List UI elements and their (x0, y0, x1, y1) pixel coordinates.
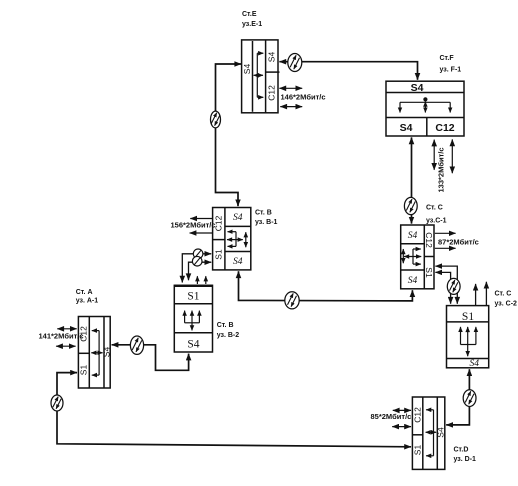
svg-text:S4: S4 (408, 276, 418, 286)
label 146*2Мбит/с with tributary arrows (279, 88, 325, 106)
svg-text:S4: S4 (411, 82, 424, 94)
svg-text:Ст. С: Ст. С (426, 205, 443, 212)
svg-text:C12: C12 (435, 122, 454, 134)
svg-text:уз. А-1: уз. А-1 (76, 298, 99, 305)
wire link E to B-1 (216, 64, 242, 206)
label Ст.В уз.В-1 (255, 210, 278, 227)
node C-1 port labels (408, 231, 434, 286)
svg-text:141*2Мбит/с: 141*2Мбит/с (39, 332, 84, 341)
label Ст.С уз.С-1 (426, 205, 447, 225)
optical cable symbol K8b lower on B-1 to B-2 link (192, 256, 202, 266)
optical cable symbol K9 on B-1 to C-1 link (285, 292, 299, 309)
svg-text:S1: S1 (462, 311, 474, 323)
wire link F to C-1 (411, 137, 413, 223)
svg-text:S4: S4 (187, 339, 199, 351)
node C-2 internal arrows (461, 327, 476, 356)
label Ст.Е уз.Е-1 (242, 11, 262, 28)
node Ст.F уз.F-1 box (386, 81, 464, 136)
node C-1 internal arrows (403, 249, 421, 264)
label 85*2Мбит/с with tributary arrows (371, 410, 412, 426)
node D port labels (412, 407, 445, 455)
wire B-2 top short up arrows (197, 276, 205, 284)
svg-text:Ст. В: Ст. В (255, 210, 272, 217)
node B-1 internal arrows (227, 232, 246, 248)
node A port labels (79, 326, 112, 375)
optical cable symbol K2 on E to F link (288, 54, 302, 72)
node B-2 internal arrows (185, 311, 200, 331)
svg-text:Ст.F: Ст.F (440, 55, 455, 62)
svg-text:146*2Мбит/с: 146*2Мбит/с (281, 93, 326, 102)
node D internal arrows (426, 410, 437, 456)
svg-text:уз. В-1: уз. В-1 (255, 219, 278, 226)
node Ст.В уз.В-2 box (174, 285, 212, 352)
label 133*2Мбит/с with tributary arrows (434, 139, 452, 192)
optical cable symbol K1 on E to B-1 link (211, 111, 221, 128)
svg-text:S4: S4 (408, 231, 418, 241)
svg-text:87*2Мбит/с: 87*2Мбит/с (438, 237, 479, 246)
svg-text:C12: C12 (424, 232, 434, 248)
svg-text:S1: S1 (412, 445, 422, 456)
node F internal arrows (400, 97, 450, 112)
wire link C-1 S1 to C-2 lower (435, 272, 450, 303)
svg-text:уз. С-2: уз. С-2 (495, 301, 518, 308)
label Ст.D уз.D-1 (454, 447, 477, 464)
svg-text:Ст. А: Ст. А (76, 289, 93, 296)
node Ст.С уз.С-1 box (401, 225, 434, 289)
svg-text:уз.С-1: уз.С-1 (426, 218, 447, 225)
svg-text:S1: S1 (424, 267, 434, 278)
svg-text:S4: S4 (267, 52, 277, 63)
node Ст.D уз.D-1 box (412, 397, 444, 469)
svg-text:S4: S4 (242, 64, 252, 75)
label Ст.А уз.А-1 (76, 289, 99, 305)
wire link B-1 S1 to B-2 top lower (189, 262, 212, 280)
node E internal cross-connect arrows (254, 53, 264, 97)
svg-text:133*2Мбит/с: 133*2Мбит/с (436, 147, 445, 192)
wire link C-2 to D (446, 369, 469, 425)
node F port labels (400, 82, 455, 134)
wire link B-1 S1 to B-2 top upper (182, 254, 211, 283)
node E port labels (242, 52, 277, 101)
svg-text:S4: S4 (233, 213, 243, 223)
node Ст.С уз.С-2 box (447, 306, 489, 368)
optical cable symbol K5 on C-2 to D link (463, 390, 476, 407)
wire link D S1 to A S1 bottom bus (57, 373, 411, 447)
wire link E to F (279, 62, 417, 80)
label Ст.F уз.F-1 (440, 55, 462, 74)
label 87*2Мбит/с with tributary arrows (435, 233, 479, 248)
wire link C-1 S1 to C-2 upper (435, 266, 457, 304)
svg-text:уз.Е-1: уз.Е-1 (242, 21, 262, 28)
label 141*2Мбит/с with tributary arrows (39, 329, 84, 346)
wire C-2 upward tributaries (476, 282, 487, 306)
node A internal arrows (91, 331, 102, 376)
node Ст.А уз.А-1 box (78, 317, 110, 389)
svg-text:S4: S4 (102, 347, 112, 358)
svg-text:Ст. С: Ст. С (495, 291, 512, 298)
svg-text:S4: S4 (233, 257, 243, 267)
wire link A S4 to B-2 bottom (112, 345, 189, 371)
svg-text:S1: S1 (187, 291, 199, 303)
node Ст.В уз.В-1 box (213, 208, 251, 270)
wire link B-1 S4 to C-1 S4 (239, 271, 413, 301)
svg-text:S4: S4 (400, 122, 413, 134)
svg-text:S4: S4 (469, 359, 479, 369)
svg-text:C12: C12 (412, 407, 422, 423)
svg-text:уз. D-1: уз. D-1 (454, 456, 477, 463)
svg-text:85*2Мбит/с: 85*2Мбит/с (371, 412, 412, 421)
optical cable symbol K6 on A to D link (51, 395, 63, 411)
node B-1 port labels (214, 213, 243, 267)
svg-text:уз. F-1: уз. F-1 (440, 67, 462, 74)
node C-2 port labels (462, 311, 479, 369)
node B-2 port labels (187, 291, 199, 351)
node Ст.Е уз.Е-1 box (242, 40, 280, 113)
svg-text:156*2Мбит/с: 156*2Мбит/с (171, 221, 216, 230)
svg-text:C12: C12 (267, 85, 277, 101)
svg-text:Ст.D: Ст.D (454, 447, 469, 454)
optical cable symbol K3 on F to C-1 link (404, 197, 417, 214)
optical cable symbol K4 on C-1 to C-2 link (447, 278, 460, 294)
svg-text:Ст. В: Ст. В (217, 322, 234, 329)
optical cable symbol K7 on A to B-2 link (130, 336, 143, 354)
svg-text:S4: S4 (435, 427, 445, 438)
optical cable symbol K8a upper on B-1 to B-2 link (193, 249, 203, 259)
label Ст.С уз.С-2 (495, 291, 518, 308)
svg-text:Ст.Е: Ст.Е (242, 11, 257, 18)
svg-text:S1: S1 (79, 365, 89, 376)
label 156*2Мбит/с with tributary arrows (171, 219, 216, 234)
svg-text:S1: S1 (214, 249, 224, 260)
label Ст.В уз.В-2 (217, 322, 240, 339)
svg-text:уз. В-2: уз. В-2 (217, 332, 240, 339)
